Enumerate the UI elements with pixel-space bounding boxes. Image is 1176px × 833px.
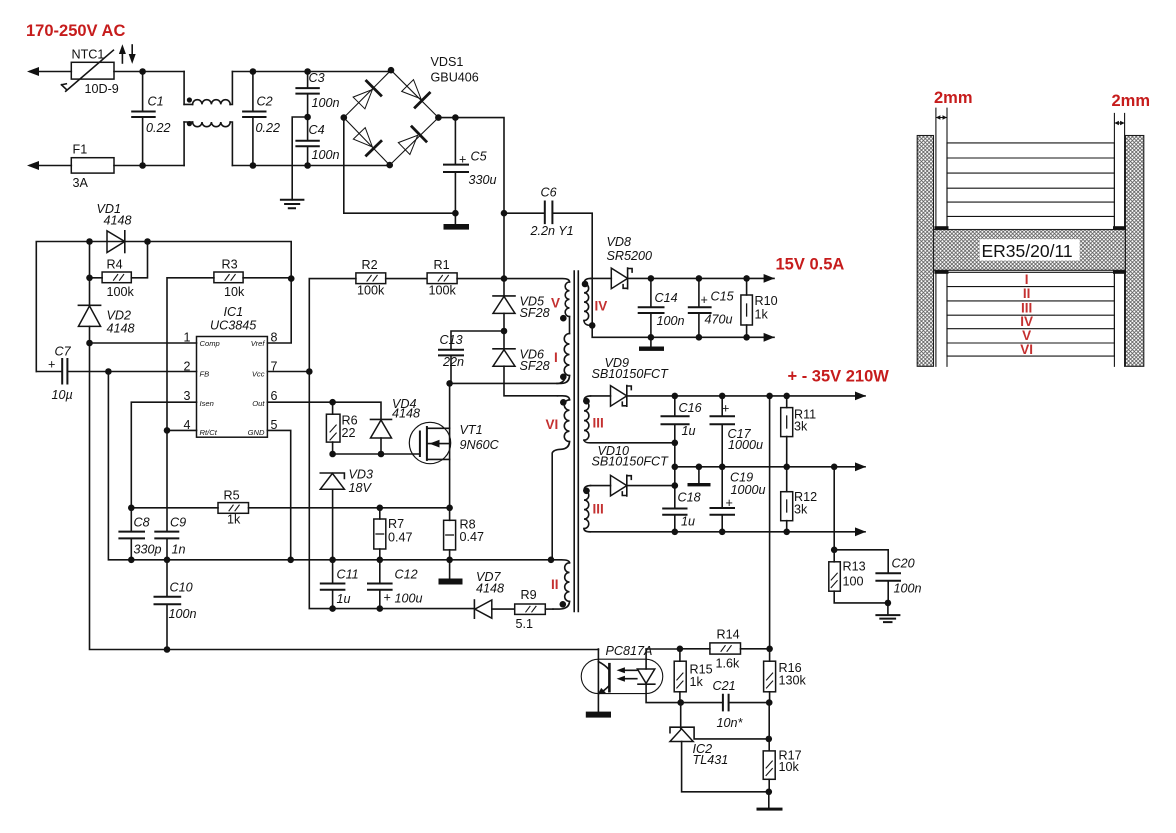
svg-text:Rt/Ct: Rt/Ct	[200, 428, 218, 437]
resistor R12 3k	[781, 467, 817, 532]
wire AC line bottom with arrow	[27, 161, 71, 170]
svg-text:9N60C: 9N60C	[460, 438, 500, 452]
node R11 top junction	[783, 393, 790, 400]
bobbin drawing left flange	[917, 136, 933, 367]
red label 15V 0.5A	[776, 256, 845, 274]
node C11 bottom junction	[329, 605, 336, 612]
wire choke to C2 top	[232, 71, 307, 73]
winding I (primary)	[554, 317, 570, 384]
svg-text:8: 8	[271, 330, 278, 344]
svg-text:130k: 130k	[779, 674, 807, 688]
winding VI (primary bias to VD6)	[546, 396, 570, 560]
resistor R17 10k	[763, 749, 801, 792]
node C1 top junction	[139, 68, 146, 75]
node C5 top junction	[452, 114, 459, 121]
resistor R11 3k	[781, 396, 816, 467]
node C12 bottom junction	[377, 605, 384, 612]
ground bar below R8	[439, 579, 463, 585]
wire drain rail to winding I bottom	[450, 378, 565, 383]
svg-text:R13: R13	[843, 560, 866, 574]
wire 15V return rail	[592, 325, 774, 337]
zener diode VD3 18V	[320, 468, 373, 560]
svg-text:1000u: 1000u	[731, 483, 766, 497]
wire LED anode to R15/R14 node	[646, 648, 680, 650]
svg-text:+: +	[722, 402, 729, 416]
resistor R10 1k	[741, 278, 778, 337]
node VD1 cathode junction	[144, 238, 151, 245]
node C4 bottom junction	[304, 162, 311, 169]
node R7 gnd junction	[377, 557, 384, 564]
resistor R13 100	[829, 550, 888, 603]
svg-text:VD8: VD8	[607, 235, 632, 249]
svg-text:SF28: SF28	[520, 359, 550, 373]
arrow 15V plus output	[764, 274, 775, 283]
capacitor C13 22n	[439, 331, 504, 383]
svg-text:C5: C5	[471, 150, 488, 164]
svg-text:100n: 100n	[894, 582, 922, 596]
winding IV (15V secondary)	[582, 278, 608, 325]
arrow 0V output	[855, 462, 866, 471]
svg-text:GND: GND	[248, 428, 265, 437]
svg-text:III: III	[1021, 300, 1032, 315]
svg-text:C6: C6	[541, 186, 557, 200]
capacitor C8 330p	[119, 508, 161, 560]
svg-text:C20: C20	[892, 557, 915, 571]
svg-text:18V: 18V	[349, 481, 373, 495]
wire pin8 Vref to R3 node	[267, 279, 291, 343]
svg-text:3: 3	[184, 389, 191, 403]
optocoupler U1 PC817A	[581, 644, 680, 712]
inductor L1 common-mode choke lower winding	[184, 121, 232, 166]
svg-text:2.2n Y1: 2.2n Y1	[530, 224, 574, 238]
wire VD2 branch vertical and bottom rail to optocoupler	[90, 242, 599, 650]
svg-text:330u: 330u	[469, 173, 497, 187]
node C15 bottom junction	[696, 334, 703, 341]
svg-text:3A: 3A	[73, 176, 89, 190]
diode VD2 4148	[78, 305, 134, 335]
node C15 top junction	[696, 275, 703, 282]
svg-text:100k: 100k	[429, 284, 457, 298]
arrow -35V output	[855, 527, 866, 536]
diode VD5 SF28	[493, 279, 550, 331]
svg-text:F1: F1	[73, 143, 88, 157]
transistor VT1 9N60C MOSFET	[409, 383, 499, 507]
op-amp controller IC1 UC3845	[197, 305, 268, 437]
svg-text:I: I	[1025, 272, 1029, 287]
svg-text:C10: C10	[170, 581, 193, 595]
svg-text:100n: 100n	[312, 148, 340, 162]
capacitor C2 0.22	[243, 72, 280, 166]
svg-text:C1: C1	[148, 95, 164, 109]
capacitor C7 10u	[36, 345, 196, 403]
svg-text:1n: 1n	[172, 543, 186, 557]
resistor R5 1k	[131, 489, 449, 527]
wire C4 bottom to bridge bottom corner	[308, 165, 390, 167]
node C2 bottom junction	[250, 162, 257, 169]
node C9 gnd junction	[164, 557, 171, 564]
ground bar below C14	[639, 347, 664, 351]
svg-text:ER35/20/11: ER35/20/11	[982, 241, 1073, 261]
capacitor C14 100n	[639, 278, 685, 346]
svg-text:C15: C15	[711, 290, 735, 304]
svg-text:Vcc: Vcc	[252, 370, 265, 379]
node C3/C4 midpoint junction	[304, 114, 311, 121]
svg-text:UC3845: UC3845	[210, 319, 257, 333]
svg-text:SR5200: SR5200	[607, 249, 653, 263]
node C16 bottom junction (winding III)	[672, 440, 679, 447]
pin 7 Vcc	[252, 360, 278, 379]
node R12 bottom junction	[783, 529, 790, 536]
svg-text:Out: Out	[252, 399, 265, 408]
svg-text:SB10150FCT: SB10150FCT	[592, 455, 670, 469]
wire R13 branch from 0V rail	[833, 467, 835, 550]
node VD5/VD6/C13 junction	[501, 328, 508, 335]
fuse F1 3A	[71, 143, 114, 191]
svg-text:470u: 470u	[705, 313, 733, 327]
svg-text:2mm: 2mm	[1112, 92, 1151, 110]
pin 8 Vref	[251, 330, 278, 348]
svg-text:4148: 4148	[392, 407, 420, 421]
bridge rectifier VDS1 GBU406	[344, 55, 479, 165]
svg-text:VD3: VD3	[349, 468, 374, 482]
svg-text:C7: C7	[55, 345, 72, 359]
svg-text:15V 0.5A: 15V 0.5A	[776, 256, 845, 274]
node feedback riser top junction	[766, 393, 773, 400]
svg-text:100n: 100n	[169, 607, 197, 621]
node 0V gnd stem junction	[696, 464, 703, 471]
resistor R2 100k	[309, 258, 427, 372]
svg-text:Vref: Vref	[251, 339, 266, 348]
wire gate rail	[333, 453, 420, 455]
wire primary gnd to Y-cap C6	[504, 212, 544, 214]
svg-text:C9: C9	[170, 516, 186, 530]
svg-text:C2: C2	[257, 95, 273, 109]
capacitor C15 470u	[689, 278, 735, 337]
node C14 bottom junction	[648, 334, 655, 341]
svg-text:Isen: Isen	[200, 399, 214, 408]
wire pin6 Out to driver	[267, 402, 381, 419]
capacitor C20 100n	[834, 550, 921, 603]
svg-text:1000u: 1000u	[728, 438, 763, 452]
bobbin 2mm pin channel right	[1113, 113, 1126, 366]
node C10 bottom junction	[164, 646, 171, 653]
wire -35V rail	[590, 531, 865, 533]
node winding VI gnd junction	[548, 557, 555, 564]
wire AC line top with arrow	[27, 67, 71, 76]
svg-text:22n: 22n	[442, 355, 464, 369]
svg-text:V: V	[551, 296, 560, 311]
node VT1 source junction	[446, 505, 453, 512]
arrow +35V output	[855, 392, 866, 401]
svg-text:II: II	[551, 577, 559, 592]
svg-text:+ - 35V 210W: + - 35V 210W	[788, 368, 890, 386]
capacitor C11 1u	[321, 560, 359, 609]
winding III upper (35V secondary)	[583, 396, 675, 443]
svg-text:2: 2	[184, 360, 191, 374]
transformer T1 core	[574, 271, 578, 612]
node Rt/Ct junction	[164, 427, 171, 434]
node C5 bottom junction	[452, 210, 459, 217]
capacitor C16 1u	[662, 396, 702, 508]
node R15 top junction	[677, 646, 684, 653]
node R1/primary top junction	[501, 275, 508, 282]
svg-text:1.6k: 1.6k	[716, 657, 741, 671]
svg-text:VT1: VT1	[460, 423, 483, 437]
node VD4 anode junction	[378, 451, 385, 458]
svg-text:3k: 3k	[794, 503, 808, 517]
winding III lower (35V secondary)	[583, 486, 604, 532]
svg-text:R5: R5	[224, 489, 240, 503]
svg-text:C18: C18	[678, 491, 701, 505]
svg-text:GBU406: GBU406	[431, 71, 479, 85]
resistor R3 10k	[167, 257, 291, 430]
node C8 gnd junction	[128, 557, 135, 564]
node bridge left corner	[341, 114, 348, 121]
svg-text:0.47: 0.47	[388, 531, 413, 545]
ground earth symbol below C20	[876, 603, 899, 622]
pin 6 Out	[252, 389, 277, 408]
arrow up (airflow mark)	[119, 44, 126, 63]
svg-text:0.47: 0.47	[460, 530, 485, 544]
node TL431 ref junction	[766, 736, 773, 743]
svg-text:C3: C3	[309, 71, 325, 85]
node Comp junction	[86, 340, 93, 347]
node R7 top junction	[377, 505, 384, 512]
capacitor C9 1n	[155, 430, 186, 559]
node bridge bottom corner	[386, 162, 393, 169]
svg-text:1k: 1k	[690, 675, 704, 689]
node R13/C20 top junction	[831, 547, 838, 554]
capacitor C1 0.22	[132, 72, 170, 166]
svg-text:C8: C8	[134, 516, 150, 530]
winding V (primary)	[504, 279, 570, 322]
wire DC riser to snubber column	[503, 213, 505, 278]
svg-text:C4: C4	[309, 123, 325, 137]
svg-text:VI: VI	[546, 417, 559, 432]
resistor R7 0.47	[374, 508, 413, 560]
node R6 top junction on Out wire	[329, 399, 336, 406]
svg-text:VD2: VD2	[107, 309, 132, 323]
capacitor C17 1000u	[711, 396, 764, 467]
svg-text:+: +	[48, 358, 55, 372]
ground bar below C5	[444, 224, 470, 230]
diode VD10 SB10150FCT (schottky)	[591, 444, 675, 496]
svg-text:TL431: TL431	[693, 753, 729, 767]
svg-text:R1: R1	[434, 258, 450, 272]
bobbin drawing right flange	[1125, 136, 1143, 367]
node R10 top junction	[743, 275, 750, 282]
pin 5 GND	[248, 418, 278, 437]
node R13 branch junction	[831, 464, 838, 471]
wire C3/C4 midpoint to ground	[292, 117, 307, 200]
node C14 top junction	[648, 275, 655, 282]
ground earth symbol below C3/C4	[281, 200, 304, 208]
node 170-250V AC input label	[26, 22, 125, 40]
red label 2mm right	[1112, 92, 1151, 110]
capacitor C10 100n	[155, 560, 197, 650]
svg-text:1: 1	[184, 330, 191, 344]
svg-text:III: III	[593, 416, 604, 431]
svg-text:R7: R7	[388, 517, 404, 531]
wire C3 top to bridge top corner	[308, 70, 391, 71]
node gate rail left junction	[329, 451, 336, 458]
resistor R14 1.6k	[680, 627, 770, 670]
wire pin5 GND to gnd rail	[267, 430, 290, 559]
wire bridge minus rail	[344, 118, 456, 214]
node C2 top junction	[250, 68, 257, 75]
svg-text:2mm: 2mm	[934, 89, 973, 107]
wire 15V rail from winding IV	[591, 277, 612, 279]
node bridge right corner	[435, 114, 442, 121]
bobbin bottom winding stack with winding order I-VI	[947, 272, 1114, 357]
node C16 top junction	[672, 393, 679, 400]
node pin5 gnd junction	[287, 557, 294, 564]
svg-text:10n*: 10n*	[717, 716, 744, 730]
svg-text:3k: 3k	[794, 420, 808, 434]
svg-text:I: I	[554, 350, 558, 365]
node R8 gnd junction	[446, 557, 453, 564]
node VD3 gnd junction	[329, 557, 336, 564]
node R4 left junction	[86, 275, 93, 282]
node C21 right junction	[766, 699, 773, 706]
svg-text:FB: FB	[200, 370, 210, 379]
svg-text:10k: 10k	[779, 760, 800, 774]
svg-text:10µ: 10µ	[52, 388, 73, 402]
node C20 bottom junction	[885, 600, 892, 607]
ground bar below 0V rail	[688, 467, 711, 487]
node R15 bottom junction	[677, 699, 684, 706]
wire NTC1 to C1 node	[114, 71, 184, 73]
diode VD4 4148	[371, 397, 421, 454]
node R17 bottom junction	[766, 789, 773, 796]
resistor R15 1k	[674, 649, 712, 703]
resistor R4 100k	[90, 242, 148, 300]
ground bar below R17	[757, 792, 783, 811]
svg-text:4148: 4148	[104, 214, 132, 228]
node Isen/R5/C8 junction	[128, 505, 135, 512]
node R14 right junction	[766, 646, 773, 653]
resistor R8 0.47	[444, 508, 484, 579]
wire 0V middle rail	[675, 466, 865, 468]
shunt regulator IC2 TL431	[670, 703, 769, 792]
svg-text:100: 100	[843, 575, 864, 589]
node FB junction	[105, 368, 112, 375]
node VD10 cathode junction	[672, 482, 679, 489]
bobbin 2mm pin channel left	[935, 108, 949, 366]
svg-text:4148: 4148	[476, 582, 504, 596]
node VD1 anode junction	[86, 238, 93, 245]
svg-text:100k: 100k	[107, 285, 135, 299]
wire Vcc aux rail to VD7	[333, 608, 475, 610]
svg-text:VDS1: VDS1	[431, 55, 464, 69]
svg-text:0.22: 0.22	[146, 121, 171, 135]
bobbin drawing centre section ER35/20/11	[934, 230, 1126, 271]
wire Comp pin1 to VD2 node	[90, 342, 197, 344]
diode VD6 SF28	[493, 331, 558, 396]
diode VD8 SR5200 (schottky)	[607, 235, 775, 289]
svg-text:100n: 100n	[312, 96, 340, 110]
svg-text:IV: IV	[595, 299, 608, 314]
svg-text:1k: 1k	[755, 308, 769, 322]
diode VD9 SB10150FCT (schottky)	[592, 356, 670, 406]
bobbin top winding stack	[947, 143, 1114, 227]
svg-text:100u: 100u	[395, 592, 423, 606]
arrow down (airflow mark)	[129, 45, 136, 64]
node winding IV bottom junction (C6)	[589, 322, 596, 329]
svg-text:100n: 100n	[657, 314, 685, 328]
resistor R9 5.1	[515, 588, 553, 631]
svg-text:R9: R9	[521, 588, 537, 602]
svg-text:R2: R2	[362, 258, 378, 272]
pin 1 Comp	[184, 330, 220, 348]
node C3 top junction	[304, 68, 311, 75]
wire Vcc down to C11/C12 rail	[309, 372, 332, 609]
svg-text:III: III	[593, 502, 604, 517]
svg-text:R10: R10	[755, 294, 778, 308]
wire pin4 Rt/Ct	[167, 429, 197, 431]
node C1 bottom junction	[139, 162, 146, 169]
wire pin3 Isen to R5	[131, 402, 196, 508]
svg-text:II: II	[1023, 286, 1031, 301]
node C18 bottom junction	[672, 529, 679, 536]
resistor R16 130k	[764, 649, 807, 703]
node R11 bottom junction	[783, 464, 790, 471]
inductor L1 common-mode choke upper winding	[184, 72, 232, 105]
node VT1 drain junction (C13)	[446, 380, 453, 387]
svg-text:0.22: 0.22	[256, 121, 281, 135]
wire bridge plus rail to DC riser	[438, 118, 504, 214]
svg-text:1u: 1u	[681, 515, 695, 529]
node C17 top junction	[719, 393, 726, 400]
svg-text:+: +	[701, 293, 708, 307]
svg-text:SB10150FCT: SB10150FCT	[592, 367, 670, 381]
capacitor C21 10n*	[681, 679, 770, 730]
svg-text:1k: 1k	[227, 513, 241, 527]
capacitor C19 1000u	[711, 467, 766, 532]
svg-text:SF28: SF28	[520, 306, 550, 320]
ground bar below optocoupler	[586, 712, 611, 718]
svg-text:1u: 1u	[682, 424, 696, 438]
svg-text:6: 6	[271, 389, 278, 403]
svg-text:C14: C14	[655, 291, 678, 305]
thermistor NTC1 10D-9	[62, 48, 119, 97]
node R3 right / Vref junction	[288, 275, 295, 282]
wire F1 to C1 bottom node	[114, 165, 184, 167]
capacitor C18 1u	[663, 491, 700, 532]
wire feedback sense riser from +35V rail	[769, 396, 771, 649]
svg-text:Comp: Comp	[200, 339, 220, 348]
svg-text:170-250V AC: 170-250V AC	[26, 22, 125, 40]
svg-text:+: +	[459, 153, 466, 167]
wire FB node down to gnd rail	[108, 372, 551, 560]
red label + - 35V 210W	[788, 368, 890, 386]
node C17 bottom junction	[719, 464, 726, 471]
svg-text:NTC1: NTC1	[72, 48, 105, 62]
svg-text:C16: C16	[679, 401, 702, 415]
svg-text:C21: C21	[713, 679, 736, 693]
svg-text:100k: 100k	[357, 284, 385, 298]
svg-text:5.1: 5.1	[516, 617, 534, 631]
svg-text:10k: 10k	[224, 285, 245, 299]
pin 4 Rt/Ct	[184, 418, 218, 437]
svg-text:330p: 330p	[134, 543, 162, 557]
svg-text:10D-9: 10D-9	[85, 82, 119, 96]
svg-text:R14: R14	[717, 627, 740, 641]
svg-text:IV: IV	[1020, 314, 1033, 329]
capacitor C5 330u	[444, 118, 497, 224]
wire choke to C2 bottom	[232, 165, 307, 167]
node C6 left junction on DC riser	[501, 210, 508, 217]
